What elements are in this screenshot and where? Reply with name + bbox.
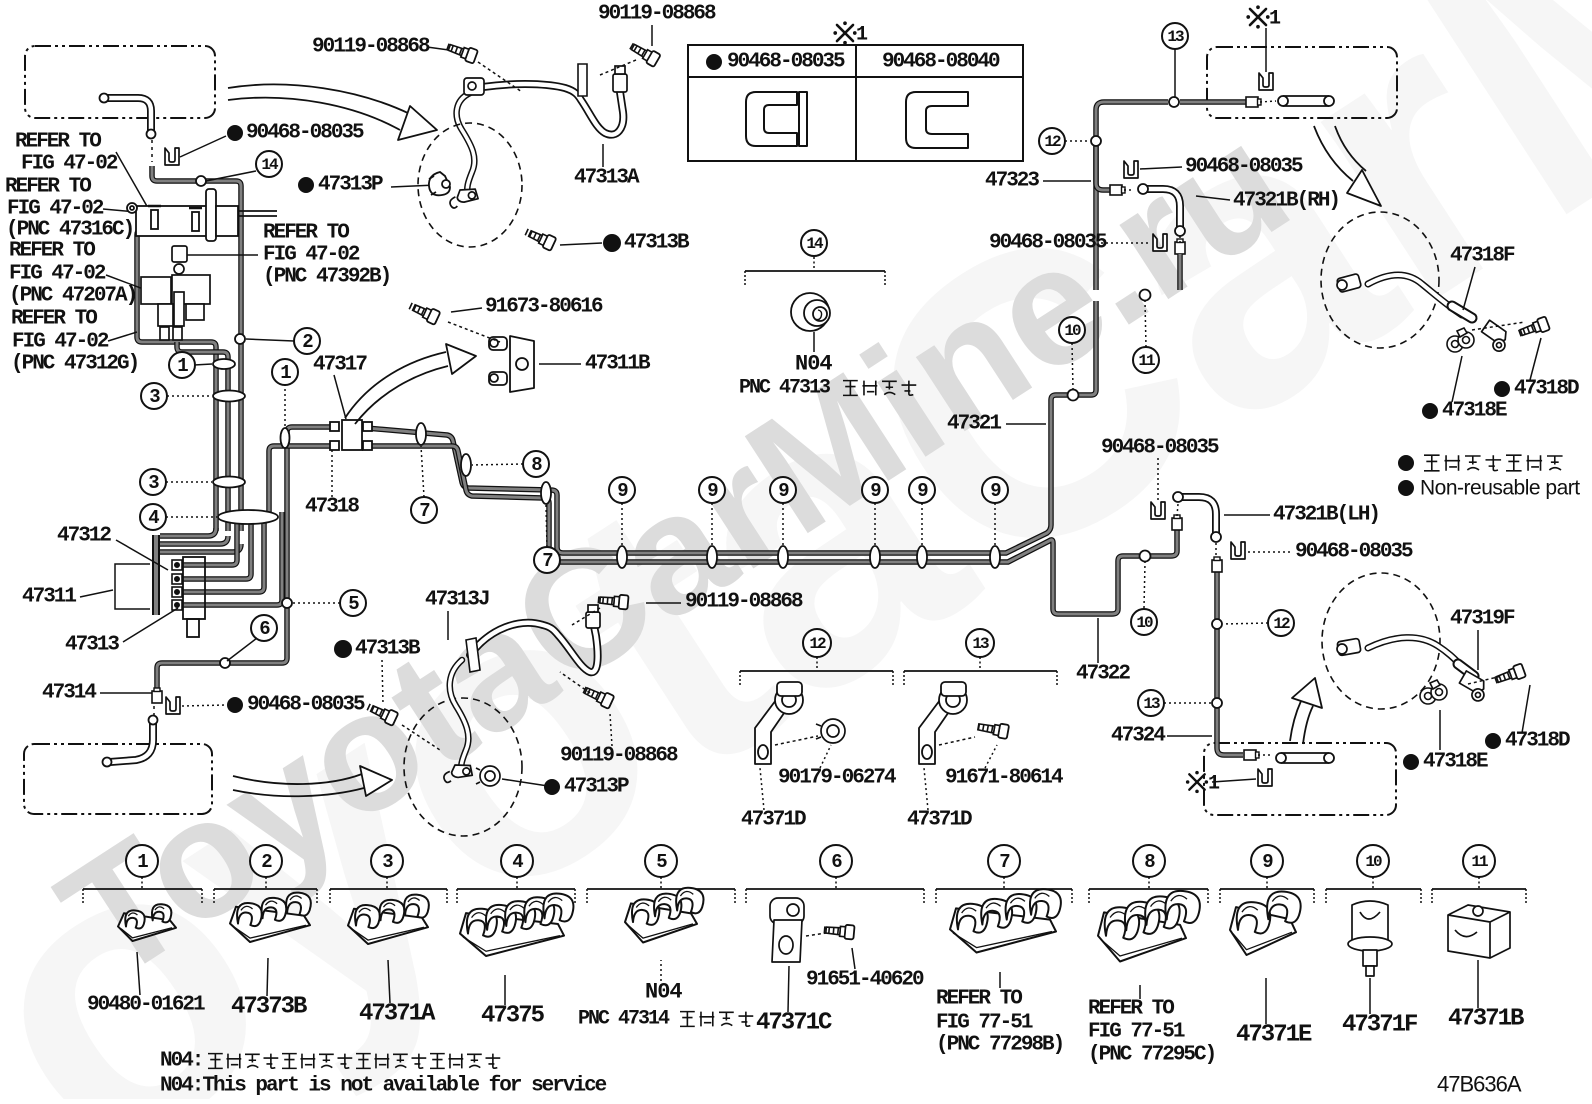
bolt 47318D bottom: [1494, 663, 1527, 686]
table bullet 90468-08035: [706, 54, 722, 70]
hose in box A: [106, 98, 151, 132]
bolt 90119 c: [598, 593, 629, 610]
tube in box B: [1278, 96, 1334, 106]
leader 4: [166, 516, 217, 518]
svg-text:47321B(LH): 47321B(LH): [1273, 504, 1379, 527]
svg-text:47313P: 47313P: [564, 776, 629, 799]
leader 14a: [206, 171, 256, 181]
leader 47318: [331, 450, 333, 497]
svg-text:47318D: 47318D: [1514, 378, 1579, 401]
bolt 91651: [824, 923, 855, 940]
leader 9-1: [621, 503, 623, 545]
dashed callout box top-right: [1207, 47, 1397, 118]
clip ellipse 8a: [461, 454, 471, 476]
dash item6: [806, 933, 826, 936]
bullet label 47313P bottom: [544, 779, 560, 795]
bullet label 47313B bottom: [334, 640, 352, 658]
svg-text:FIG 47-02: FIG 47-02: [7, 198, 104, 221]
pipe port 4: [180, 512, 282, 605]
bolt 91673-80616: [408, 300, 441, 325]
legend jp text: [1424, 455, 1563, 471]
bolt 47313B top: [524, 226, 557, 251]
circled 1 at connector: [272, 359, 298, 385]
svg-text:N04:: N04:: [160, 1050, 202, 1073]
svg-text:9: 9: [917, 480, 928, 502]
leader 47313B bottom: [382, 660, 383, 704]
hose 47313A tail: [457, 93, 475, 196]
fitting 47313A right: [613, 66, 627, 92]
svg-text:90480-01621: 90480-01621: [87, 994, 205, 1017]
pipe port 1: [180, 512, 237, 565]
clip item8 refer: [1098, 891, 1200, 962]
hose in box C: [110, 722, 153, 762]
circled bottom 4: [501, 845, 533, 877]
svg-text:4: 4: [512, 851, 523, 873]
bullet label 47313P top: [298, 177, 314, 193]
leader 90119 low: [610, 714, 612, 746]
circled bottom 10: [1357, 845, 1389, 877]
svg-text:90468-08035: 90468-08035: [246, 122, 364, 145]
leader 9-5: [921, 503, 923, 545]
svg-text:47371E: 47371E: [1236, 1022, 1312, 1049]
svg-text:FIG 47-02: FIG 47-02: [21, 153, 118, 176]
fitting 47318F left: [1337, 273, 1362, 292]
leader kome BR: [1212, 779, 1256, 782]
leader 3b: [166, 481, 212, 483]
clip ellipse 7a: [416, 423, 426, 445]
svg-text:91671-80614: 91671-80614: [945, 767, 1063, 790]
svg-text:FIG 47-02: FIG 47-02: [263, 244, 360, 267]
leader 1a: [194, 364, 212, 365]
manifold body 47312: [183, 557, 205, 637]
leader 47317: [334, 375, 346, 419]
elbow hose 47321B LH: [1181, 497, 1216, 533]
clip icon box D: [1258, 769, 1272, 786]
pipe bundle elbow c: [160, 544, 241, 552]
pipe main lower: [366, 446, 1177, 614]
leader 2: [246, 339, 294, 341]
svg-text:90119-08868: 90119-08868: [598, 3, 716, 26]
svg-text:FIG 77-51: FIG 77-51: [1088, 1021, 1185, 1044]
dashed ellipse 47318F: [1321, 212, 1439, 348]
svg-text:13: 13: [972, 635, 989, 653]
table clip drawing left: [746, 92, 807, 146]
svg-text:REFER TO: REFER TO: [11, 308, 97, 331]
dash RH lower: [1179, 236, 1181, 243]
leader 3a: [167, 395, 212, 397]
clip item5 N04: [625, 888, 704, 943]
pipe bundle elbow a: [160, 528, 216, 536]
dashed callout box bottom-left: [24, 744, 212, 814]
svg-text:FIG 47-02: FIG 47-02: [12, 331, 109, 354]
svg-text:3: 3: [382, 851, 393, 873]
junction node 10a: [1068, 390, 1079, 401]
clamp 47313P top: [429, 172, 450, 195]
bracket bottom 11: [1432, 877, 1526, 905]
leader N04 14b: [813, 332, 815, 352]
svg-text:47B636A: 47B636A: [1437, 1072, 1522, 1097]
svg-text:10: 10: [1064, 322, 1081, 340]
leader refer 47312G: [108, 332, 137, 341]
grommet drawing: [791, 293, 830, 331]
svg-text:(PNC 47316C): (PNC 47316C): [6, 219, 133, 242]
svg-text:1: 1: [1208, 773, 1220, 796]
leader 47371D right: [924, 768, 928, 810]
dash LH lower: [1215, 543, 1217, 558]
dash hose A: [151, 140, 153, 162]
leader 9-4: [874, 503, 876, 545]
clip ellipse 9-3: [778, 546, 788, 568]
arrow top-right: [1314, 126, 1353, 181]
bracket 47311B: [489, 336, 534, 392]
clip item2 47373B: [230, 893, 311, 942]
leader 90468 C: [1157, 458, 1159, 503]
svg-text:5: 5: [348, 593, 359, 615]
circled 7a: [411, 497, 437, 523]
svg-text:(PNC 77298B): (PNC 77298B): [936, 1034, 1063, 1057]
bracket bottom 4: [457, 877, 575, 905]
junction node 11: [1140, 290, 1151, 301]
arrow bottom-right: [1290, 701, 1301, 741]
svg-text:47371B: 47371B: [1448, 1006, 1524, 1033]
leader 90468 TL: [180, 136, 226, 157]
svg-text:(PNC 47392B): (PNC 47392B): [263, 266, 390, 289]
svg-text:47371F: 47371F: [1342, 1012, 1417, 1039]
svg-text:(PNC 47312G): (PNC 47312G): [11, 353, 138, 376]
leader 12b: [1223, 623, 1268, 624]
fitting 47324 end: [1244, 750, 1259, 760]
manifold port 2: [172, 574, 182, 584]
svg-text:47371D: 47371D: [741, 809, 806, 832]
circled 3a: [141, 383, 167, 409]
svg-text:47321B(RH): 47321B(RH): [1233, 190, 1339, 213]
leader item5: [660, 960, 662, 981]
fitting 13a: [1246, 97, 1261, 107]
circled 10b: [1131, 609, 1157, 635]
junction node 12a: [1091, 136, 1101, 146]
clamp 47371D left: [755, 682, 803, 764]
clip ellipse 3b: [213, 477, 245, 488]
bracket bottom 3: [330, 877, 447, 905]
dash 90119d: [560, 672, 590, 693]
svg-text:14: 14: [261, 156, 279, 174]
pipe end 47314: [152, 688, 162, 703]
bracket tab 47313A: [578, 64, 587, 96]
svg-text:9: 9: [778, 480, 789, 502]
leader 47321B RH: [1196, 196, 1230, 200]
hose 47319F: [1368, 638, 1468, 672]
leader 12a: [1065, 140, 1090, 142]
svg-text:REFER TO: REFER TO: [936, 988, 1022, 1011]
svg-text:47311B: 47311B: [585, 353, 651, 376]
svg-text:REFER TO: REFER TO: [263, 222, 349, 245]
dashed callout box top-left: [25, 46, 215, 118]
bullet label 47318E top: [1422, 403, 1438, 419]
leader 47314: [100, 692, 152, 694]
svg-text:12: 12: [809, 635, 826, 653]
leader 9-6: [994, 503, 996, 545]
circled 4: [140, 504, 166, 530]
hose 47318F: [1368, 275, 1462, 315]
svg-text:1: 1: [177, 355, 188, 377]
arrow bottom-left: [233, 774, 362, 784]
svg-text:13: 13: [1143, 695, 1160, 713]
leader 5: [293, 602, 340, 604]
circled bottom 6: [820, 845, 852, 877]
bullet label 90468-08035 TL: [227, 125, 243, 141]
leader 90468 A: [1140, 167, 1182, 169]
leader item7: [999, 972, 1001, 988]
leader 47313P bottom: [502, 779, 548, 786]
dash 47319 bottom: [1468, 676, 1502, 684]
svg-text:7: 7: [419, 500, 430, 522]
clamp 47318E bottom: [1420, 680, 1447, 704]
leader refer 47316C: [103, 209, 136, 212]
svg-text:5: 5: [656, 851, 667, 873]
clip item4 47375: [460, 893, 573, 956]
bolt 90119 a: [628, 40, 661, 67]
circled 9-5: [909, 477, 935, 503]
nut 47313P bottom: [476, 766, 500, 786]
svg-text:90468-08035: 90468-08035: [1101, 437, 1219, 460]
hose 47313A main: [483, 84, 623, 135]
svg-text:(PNC 77295C): (PNC 77295C): [1088, 1044, 1215, 1067]
leader item10: [1369, 978, 1371, 1014]
svg-text:47313: 47313: [65, 634, 119, 657]
clip ellipse 4: [218, 510, 278, 524]
junction node 10b: [1140, 551, 1151, 562]
clip icon bottom-left: [166, 697, 180, 714]
clamp 47318E top: [1447, 328, 1474, 352]
clip item9 47371E: [1230, 891, 1301, 955]
svg-text:REFER TO: REFER TO: [9, 240, 95, 263]
dash 47371D right: [939, 737, 975, 745]
leader item11: [1477, 960, 1479, 1008]
svg-text:4: 4: [148, 507, 159, 529]
svg-text:90468-08035: 90468-08035: [727, 51, 845, 74]
svg-text:13: 13: [1167, 28, 1184, 46]
clip ellipse 1a: [213, 359, 235, 369]
circled 12b: [1268, 610, 1294, 636]
leader 8: [472, 464, 523, 465]
dash box B: [1260, 101, 1276, 102]
leader 90119 top2: [427, 47, 456, 51]
svg-text:PNC 47314: PNC 47314: [578, 1008, 670, 1031]
pipe from master cylinder: [152, 166, 241, 531]
kome1 top right: [1246, 5, 1269, 28]
circled 9-6: [982, 477, 1008, 503]
pipe bundle elbow b: [160, 536, 228, 544]
dash 47324 hose: [1258, 754, 1272, 756]
leader refer 47392B: [184, 254, 258, 256]
clip item7 refer: [950, 889, 1061, 952]
bracket bottom 2: [214, 877, 317, 905]
table clip drawing right: [906, 92, 968, 148]
clip ellipse 1b: [281, 428, 290, 448]
circled 13a: [1162, 23, 1188, 49]
svg-text:2: 2: [261, 851, 272, 873]
svg-text:90468-08035: 90468-08035: [1295, 541, 1413, 564]
leader 90119 top1: [651, 25, 653, 46]
manifold port 1: [172, 560, 182, 570]
dashed ellipse 47313 detail: [418, 123, 522, 247]
leader 90468 BL: [182, 705, 226, 706]
leader 91651: [852, 948, 855, 969]
bolt 90119 d: [582, 684, 615, 709]
dash 47313B bolt: [402, 725, 440, 750]
manifold bar 47311: [152, 535, 160, 615]
svg-text:47312: 47312: [57, 525, 111, 548]
banjo 47319F: [1456, 671, 1491, 703]
leader 47313: [123, 608, 178, 642]
clip icon top-left: [165, 148, 179, 165]
svg-text:47371C: 47371C: [756, 1010, 832, 1037]
circled 13c: [966, 629, 994, 657]
circled 9-2: [699, 477, 725, 503]
circled 14b: [801, 230, 827, 256]
svg-text:2: 2: [302, 331, 313, 353]
svg-text:47375: 47375: [481, 1003, 545, 1030]
svg-text:N04:This part is not available: N04:This part is not available for servi…: [160, 1075, 607, 1098]
fitting LH riser top: [1172, 515, 1182, 530]
svg-text:N04: N04: [645, 980, 682, 1005]
leader 11: [1145, 301, 1146, 347]
svg-text:47318D: 47318D: [1505, 730, 1570, 753]
clip item6 47371C: [770, 898, 804, 962]
legend bullet jp: [1398, 455, 1414, 471]
dash 91673 to 47311B: [448, 322, 500, 342]
pipe 47324 riser: [1217, 572, 1243, 755]
pipe RH riser: [1177, 254, 1183, 290]
circled bottom 1: [126, 845, 158, 877]
dash 47318 top: [1472, 322, 1525, 330]
leader refer fig47-02 top: [116, 152, 148, 208]
svg-text:90119-08868: 90119-08868: [560, 745, 678, 768]
pipe from actuator: [177, 342, 228, 531]
svg-text:47319F: 47319F: [1450, 608, 1515, 631]
clip ellipse 9-1: [617, 546, 627, 568]
svg-text:3: 3: [148, 472, 159, 494]
banjo 47313A left: [464, 78, 484, 95]
clip icon box B: [1259, 73, 1273, 90]
svg-text:9: 9: [617, 480, 628, 502]
svg-text:91651-40620: 91651-40620: [806, 969, 924, 992]
bracket bottom 9: [1220, 877, 1314, 905]
bracket 14b: [745, 257, 885, 287]
leader 91671: [985, 745, 997, 768]
clip ellipse 9-5: [917, 546, 927, 568]
leader item9: [1265, 978, 1267, 1024]
svg-text:90468-08035: 90468-08035: [247, 694, 365, 717]
leader 47321: [1006, 423, 1046, 425]
bracket bottom 8: [1089, 877, 1208, 905]
leader 47323: [1043, 180, 1091, 182]
clip ellipse 3a: [213, 391, 245, 402]
circled 2: [294, 328, 320, 354]
svg-text:9: 9: [1262, 851, 1273, 873]
circled bottom 5: [645, 845, 677, 877]
svg-text:47313J: 47313J: [425, 589, 489, 612]
leader 13b: [1164, 702, 1211, 704]
svg-text:47323: 47323: [985, 170, 1039, 193]
clip icon 90468 A: [1124, 161, 1138, 178]
fitting 47323 end: [1110, 185, 1125, 195]
dashed callout box bottom-right: [1204, 743, 1396, 815]
svg-text:90119-08868: 90119-08868: [312, 36, 430, 59]
svg-text:47314: 47314: [42, 682, 96, 705]
clip icon 90468 C: [1151, 502, 1165, 519]
svg-text:47317: 47317: [313, 354, 367, 377]
bullet label 90468 BL: [227, 697, 243, 713]
svg-text:47318E: 47318E: [1423, 751, 1488, 774]
leader item1: [137, 952, 140, 995]
arrow mid-left: [345, 352, 446, 418]
pipe connector left lower: [269, 446, 330, 512]
brake actuator block: [141, 275, 210, 340]
kome bottom right: [1186, 771, 1208, 793]
banjo 47318F: [1478, 320, 1513, 353]
leader 90468 D: [1248, 551, 1292, 553]
fitting 47313J right: [586, 605, 600, 628]
leader refer 47207A: [106, 275, 146, 290]
svg-text:47371D: 47371D: [907, 809, 972, 832]
bolt 47313B bottom: [366, 701, 399, 726]
svg-text:(PNC 47207A): (PNC 47207A): [9, 285, 136, 308]
svg-text:1: 1: [1269, 8, 1281, 31]
dash LH upper: [1177, 504, 1178, 516]
circled bottom 9: [1251, 845, 1283, 877]
clip item11 47371B: [1448, 905, 1510, 958]
bolt 90119 b: [446, 40, 479, 63]
circled 10a: [1059, 317, 1085, 343]
leader 47313P top: [391, 185, 436, 187]
bullet label 47313B top: [603, 234, 621, 252]
bracket tab 47313J: [466, 638, 480, 672]
leader item4: [504, 975, 506, 1005]
booster fitting 47392B: [172, 246, 187, 274]
junction node 13a: [1169, 97, 1179, 107]
leader 9-3: [782, 503, 784, 545]
pipe port 2: [180, 512, 251, 579]
fitting RH lower: [1175, 239, 1185, 254]
leader 47311: [80, 590, 113, 597]
leader 47313J: [447, 611, 449, 640]
legend bullet en: [1398, 480, 1414, 496]
svg-text:47318: 47318: [305, 496, 359, 519]
svg-text:1: 1: [280, 362, 291, 384]
dash 47371D left: [775, 736, 818, 745]
circled 1a: [169, 352, 195, 378]
svg-text:9: 9: [990, 480, 1001, 502]
dash bolt-b to hose: [478, 62, 522, 92]
dash 90119c: [572, 608, 600, 625]
leader 10a: [1072, 343, 1073, 389]
fitting LH lower: [1212, 557, 1222, 572]
pipe connector left upper: [157, 427, 330, 692]
connector 47317: [330, 420, 372, 450]
hose 47313J tail: [450, 660, 469, 772]
manifold port 4: [172, 600, 182, 610]
svg-text:12: 12: [1273, 615, 1290, 633]
svg-text:10: 10: [1365, 853, 1382, 871]
leader 47313A: [602, 144, 604, 167]
svg-text:9: 9: [870, 480, 881, 502]
hose 47318F sleeve: [1452, 306, 1472, 318]
leader 47318E top: [1452, 356, 1462, 402]
clip item3 47371A: [348, 895, 429, 944]
leader 7a: [421, 446, 424, 497]
circled 8: [523, 451, 549, 477]
